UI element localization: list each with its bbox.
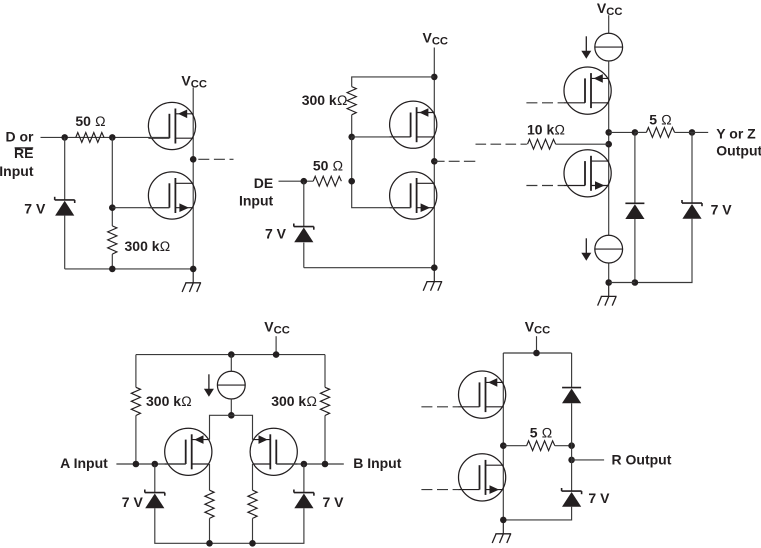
resistor R10 (Q8 source): [248, 490, 257, 518]
resistor R3 300 kohm pull-up: [347, 87, 356, 115]
Vcc supply label (D//RE input stage): [181, 72, 207, 90]
svg-text:300 kΩ: 300 kΩ: [271, 393, 317, 409]
svg-text:R Output: R Output: [612, 451, 672, 467]
label: 7 V (D6): [323, 494, 345, 510]
svg-text:50 Ω: 50 Ω: [313, 157, 343, 173]
label: R Output: [612, 451, 672, 467]
wire: left pull-up column: [135, 355, 137, 464]
wire: dashed stage output: [434, 160, 475, 162]
wire: output branch: [609, 131, 635, 133]
label: DE Input: [239, 175, 274, 209]
wire: Q7 source degeneration column: [209, 464, 211, 543]
label: 300 kohm (R3): [302, 92, 348, 108]
node: zener tap A: [152, 461, 159, 468]
node: rail to ground: [190, 266, 197, 273]
diode D3 (output clamp to GND): [625, 203, 644, 219]
node: Q3/Q4 drain junction (stage output): [431, 158, 438, 165]
label: B Input: [353, 455, 402, 471]
current source I3 (tail): [204, 355, 245, 399]
Vcc supply label (A/B input stage): [264, 318, 290, 336]
wire: input to gates of Q1: [41, 136, 170, 138]
label: Y or Z Output: [716, 126, 761, 159]
label: 7 V (D5): [122, 494, 144, 510]
svg-text:7 V: 7 V: [265, 226, 287, 242]
svg-text:300 kΩ: 300 kΩ: [146, 393, 192, 409]
MOSFET Q8 (B side): [250, 428, 297, 475]
node: Q3 gate junction: [348, 134, 355, 141]
ground (circuit 1): [182, 269, 201, 292]
zener diode D1 7 V input clamp: [55, 197, 75, 216]
ground (circuit 3): [598, 283, 617, 306]
label: 5 ohm (R6): [649, 111, 672, 127]
wire: R5 to rail: [556, 143, 609, 145]
label: 300 kohm (R8): [271, 393, 317, 409]
node: feedback 10 kohm tap: [605, 141, 612, 148]
wire: B input line: [276, 463, 344, 465]
node: Q1/Q2 drain junction (stage output): [190, 156, 197, 163]
wire: tail to pair: [230, 399, 232, 415]
wire: D3 branch down: [634, 132, 636, 282]
wire: dashed link to 10 kohm: [476, 143, 527, 145]
svg-text:DE: DE: [254, 175, 273, 191]
diode D7 (clamp to Vcc): [562, 388, 581, 404]
label: 5 ohm (R11): [530, 424, 553, 440]
wire: DE input: [279, 180, 314, 182]
svg-text:7 V: 7 V: [122, 494, 144, 510]
wire: gate column down to R2: [111, 137, 113, 269]
node: rail to ground: [431, 264, 438, 271]
label: 50 ohm (R4): [313, 157, 343, 173]
Vcc supply label (Y/Z output stage): [597, 0, 623, 18]
resistor R6 5 ohm: [646, 128, 674, 138]
wire: R output: [572, 446, 605, 460]
node: Vcc junction: [533, 350, 540, 357]
node B: gate column tap: [109, 134, 116, 141]
svg-text:A Input: A Input: [60, 455, 108, 471]
svg-text:Output: Output: [716, 142, 761, 158]
zener diode D8 7 V output clamp: [562, 488, 582, 507]
svg-text:7 V: 7 V: [323, 494, 345, 510]
wire: top rail: [503, 352, 571, 354]
svg-text:300 kΩ: 300 kΩ: [125, 238, 171, 254]
wire: Vcc stub to current source: [608, 15, 610, 33]
svg-text:Input: Input: [239, 193, 274, 209]
label: 10 kohm (R5): [527, 121, 565, 137]
svg-text:5 Ω: 5 Ω: [530, 424, 553, 440]
resistor R2 300 kohm: [108, 226, 117, 254]
node: current source branch: [228, 351, 235, 358]
wire: to R11: [503, 445, 526, 447]
wire: zener D4 branch down: [635, 132, 692, 282]
ground (circuit 5): [492, 520, 511, 543]
node: R9 to rail: [206, 540, 213, 547]
svg-text:B Input: B Input: [353, 455, 402, 471]
node: rail to ground: [605, 279, 612, 286]
label: 300 kohm (R7): [146, 393, 192, 409]
zener diode D2 7 V input clamp: [294, 224, 314, 243]
wire: diode D7 branch from Vcc rail: [571, 353, 573, 446]
Vcc supply label (R output stage): [525, 318, 551, 336]
n-channel MOSFET Q6: [564, 150, 611, 197]
p-channel MOSFET Q5: [564, 67, 611, 114]
svg-text:Y or Z: Y or Z: [716, 126, 756, 142]
wire: dashed gate drive to Q6: [526, 185, 564, 187]
node: output junction (to 5 ohm): [605, 129, 612, 136]
wire: right pull-up column: [324, 355, 326, 464]
wire: branch to pull-up R3: [352, 77, 435, 87]
svg-text:10 kΩ: 10 kΩ: [527, 121, 565, 137]
label: 7 V (D2): [265, 226, 287, 242]
resistor R4 50 ohm: [313, 176, 341, 186]
svg-text:D or: D or: [6, 129, 35, 145]
n-channel MOSFET Q2: [148, 172, 195, 219]
node: R7 to A line: [133, 461, 140, 468]
wire: zener D8 branch: [503, 460, 571, 520]
node: D3 to ground rail: [632, 279, 639, 286]
label: 50 ohm: [75, 113, 105, 129]
wire: top rail: [136, 354, 325, 356]
label: A Input: [60, 455, 108, 471]
svg-text:50 Ω: 50 Ω: [75, 113, 105, 129]
node: tail junction: [228, 412, 235, 419]
current source I1 (high-side): [581, 33, 622, 61]
node: zener tap B: [301, 461, 308, 468]
wire: zener branch down: [303, 181, 305, 268]
svg-text:7 V: 7 V: [588, 490, 610, 506]
wire: zener branch down: [64, 137, 66, 269]
wire: to Q2 gate: [112, 207, 169, 209]
wire: A input line: [116, 463, 185, 465]
svg-text:7 V: 7 V: [24, 201, 46, 217]
label: 300 kohm (R2): [125, 238, 171, 254]
resistor R11 5 ohm: [527, 441, 555, 451]
wire: dashed gate drive to Q10: [421, 489, 459, 491]
node: R4 to gate column: [348, 178, 355, 185]
wire: bottom ground rail: [304, 267, 435, 269]
current source I2 (low-side): [581, 235, 622, 263]
wire: bottom ground rail: [65, 268, 194, 270]
wire: gate column to Q4 gate: [352, 137, 411, 208]
wire: to Q3 gate: [352, 136, 411, 138]
wire: R3 to gate node: [351, 115, 353, 137]
resistor R5 10 kohm: [528, 139, 556, 149]
wire: Q8 source degeneration column: [252, 464, 254, 543]
wire: Vcc vertical rail through Q1/Q2 to bottom rail: [192, 88, 194, 269]
wire: tail split to Q7/Q8: [210, 415, 253, 439]
wire: bottom ground rail: [609, 282, 635, 284]
label: 7 V (D8): [588, 490, 610, 506]
node A: input / zener tap: [61, 134, 68, 141]
MOSFET Q7 (A side): [165, 428, 212, 475]
label: D or RE Input: [0, 129, 34, 179]
node: rail to ground: [500, 517, 507, 524]
node: R11 junction: [568, 442, 575, 449]
svg-text:300 kΩ: 300 kΩ: [302, 92, 348, 108]
resistor R1 50 ohm: [76, 133, 104, 143]
node: R10 to rail: [249, 540, 256, 547]
wire: dashed gate drive to Q5: [526, 102, 564, 104]
wire: Vcc stub: [536, 336, 538, 353]
wire: left column through Q9/Q10: [502, 353, 504, 520]
wire: dashed gate drive to Q9: [421, 406, 459, 408]
node: diode D3 column: [632, 129, 639, 136]
svg-text:5 Ω: 5 Ω: [649, 111, 672, 127]
label: 7 V (D1): [24, 201, 46, 217]
node: Vcc stub junction: [273, 351, 280, 358]
n-channel MOSFET Q4: [390, 172, 437, 219]
svg-text:Input: Input: [0, 163, 34, 179]
resistor R8 300 kohm (B pull-up): [320, 387, 329, 415]
node: input / zener tap: [301, 178, 308, 185]
zener diode D4 7 V output clamp: [682, 200, 702, 219]
node: R8 to B line: [322, 461, 329, 468]
zener diode D5 7 V clamp (A): [145, 490, 165, 509]
n-channel MOSFET Q10: [459, 454, 506, 501]
wire: output rail through Q5/Q6: [608, 61, 610, 283]
zener diode D6 7 V clamp (B): [294, 490, 314, 509]
node: Y/Z output: [689, 129, 696, 136]
p-channel MOSFET Q9: [459, 371, 506, 418]
svg-text:7 V: 7 V: [711, 201, 733, 217]
node: R2 to ground rail: [109, 266, 116, 273]
wire: zener A branch: [155, 464, 210, 543]
node: Q2 gate tap: [109, 204, 116, 211]
label: 7 V (D4): [711, 201, 733, 217]
p-channel MOSFET Q1: [148, 102, 195, 149]
wire: Vcc stub: [275, 336, 277, 354]
node: Vcc / R3 branch: [431, 74, 438, 81]
p-channel MOSFET Q3: [390, 101, 437, 148]
wire: dashed stage output: [198, 158, 233, 160]
node: Q9/Q10 junction (to 5 ohm): [500, 442, 507, 449]
resistor R7 300 kohm (A pull-up): [131, 387, 140, 415]
Vcc supply label (DE input stage): [423, 29, 449, 47]
wire: R11 to diode column: [555, 445, 572, 447]
ground (circuit 2): [423, 268, 442, 291]
wire: Vcc stub and rail through Q3/Q4: [433, 48, 435, 269]
resistor R9 (Q7 source): [205, 490, 214, 518]
wire: bottom rail: [210, 542, 253, 544]
wire: to output terminal: [635, 131, 708, 133]
wire: zener B branch: [253, 464, 304, 543]
node: R output tap: [568, 457, 575, 464]
